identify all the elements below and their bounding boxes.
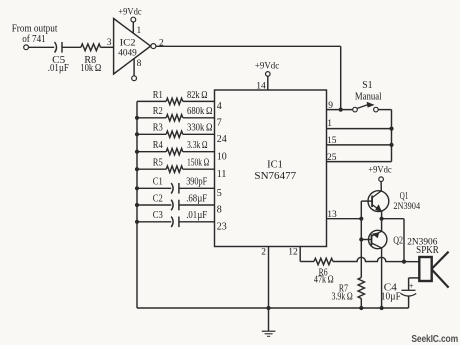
- junction bus row C2: [135, 203, 139, 207]
- wire pin 1: [327, 128, 392, 130]
- Q1 +9V terminal: [379, 177, 384, 182]
- svg-text:IC1: IC1: [267, 159, 283, 170]
- pin 10 label: [217, 151, 227, 162]
- wire R8 to IC2 pin 3: [101, 46, 114, 48]
- junction pin 15 rail: [389, 143, 393, 147]
- junction base bus pin13: [359, 217, 363, 221]
- junction ground R7: [359, 306, 363, 310]
- junction pin 1 rail: [389, 127, 393, 131]
- pin 12 label: [288, 248, 298, 258]
- IC1 +9V terminal: [266, 72, 271, 77]
- svg-text:+: +: [409, 280, 414, 290]
- wire input to C5: [29, 46, 55, 48]
- svg-text:8: 8: [137, 59, 142, 69]
- Q2 label: [393, 235, 403, 246]
- wire pin 25: [327, 161, 392, 163]
- svg-text:From output: From output: [12, 24, 58, 35]
- watermark SeekIC.com: [411, 333, 458, 345]
- IC2 pin 8 terminal: [132, 76, 137, 81]
- power +9Vdc for Q1: [368, 166, 391, 176]
- ground: [262, 331, 276, 336]
- svg-text:47k Ω: 47k Ω: [314, 275, 334, 286]
- resistor R3: [137, 123, 215, 138]
- pin 2 label IC2: [159, 39, 164, 49]
- Q2 part number: [407, 237, 437, 247]
- svg-text:10k Ω: 10k Ω: [80, 63, 101, 74]
- svg-text:82k Ω: 82k Ω: [187, 90, 208, 101]
- svg-text:25: 25: [327, 153, 337, 163]
- capacitor C5: [48, 42, 69, 74]
- wire down to pin 9 node: [340, 46, 342, 109]
- wire pin 14: [267, 76, 269, 90]
- pin 7 label: [217, 117, 222, 128]
- svg-text:of 741: of 741: [22, 34, 46, 45]
- svg-text:SeekIC.com: SeekIC.com: [411, 333, 458, 345]
- svg-text:15: 15: [327, 136, 337, 146]
- wire Q2 base: [361, 239, 371, 241]
- pin 1 label: [327, 119, 332, 129]
- svg-text:13: 13: [327, 210, 337, 220]
- junction output rail: [402, 260, 406, 264]
- capacitor C2: [137, 193, 215, 210]
- svg-text:12: 12: [288, 248, 298, 258]
- resistor R7: [332, 278, 365, 303]
- IC2 pin 1 terminal: [131, 17, 136, 22]
- pin 24 label: [217, 134, 227, 145]
- op-amp U IC2 4049 triangle: [114, 19, 151, 75]
- wire Q1 base: [361, 200, 372, 202]
- svg-text:+9Vdc: +9Vdc: [118, 8, 141, 18]
- pin 14 label: [256, 81, 266, 91]
- transistor Q2 2N3906: [369, 230, 387, 248]
- svg-text:S1: S1: [362, 80, 372, 91]
- wire Q2 emitter up: [381, 219, 383, 232]
- svg-text:5: 5: [217, 188, 222, 199]
- pin 8 label: [217, 205, 222, 216]
- junction bus row C3: [135, 220, 139, 224]
- resistor R4: [137, 140, 215, 155]
- pin 1 label IC2: [137, 26, 142, 36]
- svg-text:.01µF: .01µF: [48, 63, 69, 74]
- wire pin 9: [327, 109, 353, 111]
- svg-text:R5: R5: [153, 158, 163, 169]
- IC U1 SN76477 body: [215, 90, 327, 247]
- wire speaker bottom to C4: [409, 278, 419, 290]
- svg-text:SPKR: SPKR: [416, 245, 439, 256]
- junction bus row R3: [135, 132, 139, 136]
- capacitor C1: [137, 177, 215, 194]
- junction Q2 base: [359, 237, 363, 241]
- pin 15 label: [327, 136, 337, 146]
- svg-text:10µF: 10µF: [381, 291, 401, 302]
- wire right rail down: [391, 110, 393, 162]
- svg-text:+9Vdc: +9Vdc: [255, 61, 279, 71]
- IC2 output bubble: [151, 44, 156, 49]
- svg-text:C2: C2: [153, 193, 163, 204]
- svg-text:.01µF: .01µF: [186, 210, 207, 221]
- svg-text:Q1: Q1: [400, 191, 409, 202]
- power +9Vdc for IC2: [118, 8, 141, 18]
- svg-text:7: 7: [217, 117, 222, 128]
- svg-text:11: 11: [217, 169, 227, 180]
- svg-text:1: 1: [137, 26, 142, 36]
- wire C4 to ground rail: [408, 296, 410, 308]
- Q1 label: [393, 191, 420, 212]
- junction bus row R4: [135, 150, 139, 154]
- svg-text:1: 1: [327, 119, 332, 129]
- svg-text:C3: C3: [153, 210, 163, 221]
- svg-text:9: 9: [328, 101, 333, 111]
- resistor R5: [137, 158, 215, 173]
- svg-text:R3: R3: [153, 123, 163, 134]
- svg-text:24: 24: [217, 134, 227, 145]
- resistor R6: [314, 258, 334, 285]
- switch S1 label: [355, 80, 382, 103]
- input terminal: [24, 45, 29, 50]
- pin 25 label: [327, 153, 337, 163]
- wire C5 to R8: [62, 46, 81, 48]
- capacitor C4: [381, 282, 416, 302]
- junction bus row C1: [135, 186, 139, 190]
- svg-text:Manual: Manual: [355, 92, 382, 103]
- switch S1 throw: [374, 107, 379, 112]
- svg-text:150k Ω: 150k Ω: [187, 158, 209, 169]
- svg-text:4049: 4049: [118, 49, 137, 59]
- pin 23 label: [217, 221, 227, 232]
- svg-text:23: 23: [217, 221, 227, 232]
- svg-text:3: 3: [107, 38, 112, 48]
- pin 11 label: [217, 169, 227, 180]
- wire +9V to Q1 collector: [380, 182, 382, 192]
- junction ground Q2 collector: [380, 306, 384, 310]
- svg-text:Q2: Q2: [393, 235, 403, 246]
- pin 13 label: [327, 210, 337, 220]
- wire IC2 pin 1: [132, 22, 134, 33]
- base bus vertical: [360, 201, 362, 277]
- svg-text:680k Ω: 680k Ω: [187, 106, 213, 117]
- IC2 pin 8 wire: [133, 59, 135, 76]
- ground bus left vertical: [136, 101, 138, 308]
- resistor R8: [80, 44, 101, 74]
- svg-text:2N3904: 2N3904: [393, 202, 420, 212]
- wire Q2 collector down: [381, 248, 383, 308]
- pin 5 label: [217, 188, 222, 199]
- svg-text:SN76477: SN76477: [254, 171, 296, 182]
- resistor R2: [137, 106, 215, 121]
- junction emitter node: [380, 217, 384, 221]
- svg-text:10: 10: [217, 151, 227, 162]
- switch S1 pole: [353, 107, 358, 112]
- svg-text:C1: C1: [153, 177, 163, 188]
- transistor Q1 2N3904: [368, 191, 389, 212]
- power +9Vdc for IC1: [255, 61, 279, 71]
- ground rail: [137, 307, 409, 309]
- svg-text:2: 2: [261, 248, 266, 258]
- capacitor C4 plus: [409, 280, 414, 290]
- junction bus row R5: [135, 167, 139, 171]
- svg-text:R1: R1: [153, 90, 163, 101]
- pin 8 label IC2: [137, 59, 142, 69]
- wire switch to right rail: [378, 109, 391, 111]
- svg-text:390pF: 390pF: [186, 177, 207, 188]
- wire IC2 output to switch node: [156, 45, 341, 47]
- junction pin 9 node: [339, 108, 343, 112]
- pin 4 label: [217, 101, 222, 112]
- svg-text:.68µF: .68µF: [186, 193, 207, 204]
- svg-text:3.3k Ω: 3.3k Ω: [187, 140, 208, 151]
- junction bus row R2: [135, 116, 139, 120]
- switch S1 blade: [357, 102, 374, 109]
- pin 9 label: [328, 101, 333, 111]
- wire pin 2 stub: [268, 247, 270, 332]
- wire Q1 emitter down: [381, 211, 383, 218]
- svg-text:3.9k Ω: 3.9k Ω: [332, 291, 353, 302]
- capacitor C3: [137, 210, 215, 227]
- pin 3 label IC2: [107, 38, 112, 48]
- wire pin 13: [327, 218, 362, 220]
- speaker SPKR: [416, 245, 448, 288]
- junction ground pin2: [266, 306, 270, 310]
- wire pin 15: [327, 144, 392, 146]
- svg-text:+9Vdc: +9Vdc: [368, 166, 391, 176]
- svg-text:IC2: IC2: [120, 38, 136, 48]
- svg-text:2: 2: [159, 39, 164, 49]
- svg-text:R2: R2: [153, 106, 163, 117]
- svg-text:14: 14: [256, 81, 266, 91]
- svg-text:330k Ω: 330k Ω: [187, 123, 213, 134]
- pin 2 label: [261, 248, 266, 258]
- wire emitter node to output: [382, 219, 404, 262]
- resistor R1: [137, 90, 215, 105]
- wire R7 to ground rail: [360, 299, 362, 309]
- output rail with hops: [333, 257, 419, 261]
- svg-text:8: 8: [217, 205, 222, 216]
- svg-text:4: 4: [217, 101, 222, 112]
- node input from 741 (label): [12, 24, 58, 46]
- svg-text:R4: R4: [153, 140, 163, 151]
- wire pin 12: [300, 247, 314, 262]
